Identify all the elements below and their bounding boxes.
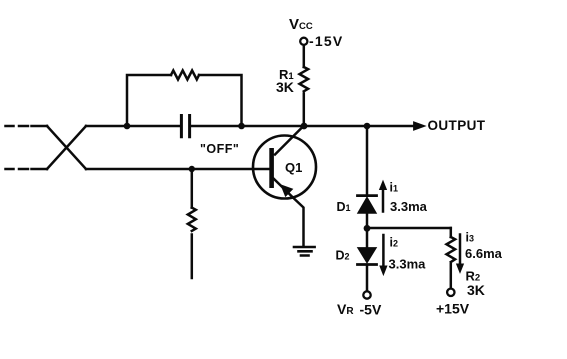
transistor Q1 emitter — [274, 179, 304, 247]
wire: D1 to mid node — [366, 213, 369, 228]
wire: base stub down — [191, 169, 194, 208]
svg-text:6.6ma: 6.6ma — [465, 246, 503, 261]
svg-text:Q1: Q1 — [285, 160, 302, 175]
svg-text:3K: 3K — [467, 282, 485, 298]
wire: bottom-left dashed input lead — [6, 168, 48, 171]
wire: crossover X (bottom-left to top-right) — [47, 126, 86, 169]
wire: R2 to +15V terminal — [450, 264, 453, 288]
diode D1 cathode bar — [358, 194, 377, 197]
resistor (feedback, horizontal) — [171, 71, 199, 80]
wire: top rail right of capacitor to output — [191, 125, 414, 128]
ground — [294, 247, 315, 256]
svg-text:3.3ma: 3.3ma — [389, 257, 427, 272]
svg-text:i3: i3 — [466, 231, 475, 245]
terminal VR — [363, 291, 370, 298]
svg-text:+15V: +15V — [436, 301, 470, 317]
terminal Vcc — [300, 38, 307, 45]
diode D2 triangle — [358, 248, 376, 263]
wire: top rail left of capacitor — [86, 125, 180, 128]
svg-text:-15V: -15V — [309, 33, 343, 49]
transistor Q1 base bar — [269, 148, 274, 188]
transistor Q1 emitter arrow (PNP) — [282, 186, 293, 196]
svg-text:-5V: -5V — [360, 302, 382, 318]
wire: mid node to D2 — [366, 228, 369, 248]
transistor Q1 collector — [275, 126, 304, 155]
terminal +15V — [447, 289, 454, 296]
wire: D2 to VR terminal — [366, 266, 369, 291]
diode D1 triangle — [358, 198, 376, 214]
wire: stub tail — [191, 235, 194, 279]
transistor Q1 circle — [253, 136, 316, 199]
wire: feedback loop left vertical — [127, 75, 171, 126]
capacitor C1 — [181, 116, 189, 137]
resistor (base stub, vertical) — [188, 208, 196, 231]
wire: top-left dashed input lead — [6, 125, 48, 128]
svg-text:3.3ma: 3.3ma — [390, 199, 428, 214]
svg-text:OUTPUT: OUTPUT — [428, 118, 486, 133]
svg-text:i1: i1 — [390, 181, 399, 195]
diode D2 anode bar — [358, 263, 377, 266]
wire: base rail — [86, 168, 269, 171]
resistor R1 — [299, 67, 308, 91]
output arrow — [414, 122, 425, 130]
svg-text:D1: D1 — [337, 200, 351, 214]
svg-text:VCC: VCC — [289, 16, 313, 33]
wire: collector node down to D1 — [366, 126, 369, 195]
wire: mid node to R2 — [367, 227, 451, 230]
current arrow i2 (down) — [382, 235, 385, 267]
svg-text:VR: VR — [337, 301, 354, 317]
wire: R2 top — [450, 228, 453, 237]
wire: feedback loop right side — [199, 75, 242, 126]
node: junction dots — [124, 123, 371, 232]
resistor R2 — [446, 237, 455, 262]
wire: crossover X (top-left to bottom-right) — [47, 126, 86, 169]
current arrow i1 (up) — [382, 188, 385, 212]
wire: R1 to collector node — [303, 94, 306, 127]
svg-text:"OFF": "OFF" — [200, 142, 239, 156]
svg-text:i2: i2 — [390, 236, 399, 250]
svg-text:D2: D2 — [336, 249, 350, 263]
current arrow i3 (down) — [459, 235, 462, 266]
svg-text:3K: 3K — [276, 79, 294, 95]
wire: Vcc to R1 — [303, 45, 306, 67]
